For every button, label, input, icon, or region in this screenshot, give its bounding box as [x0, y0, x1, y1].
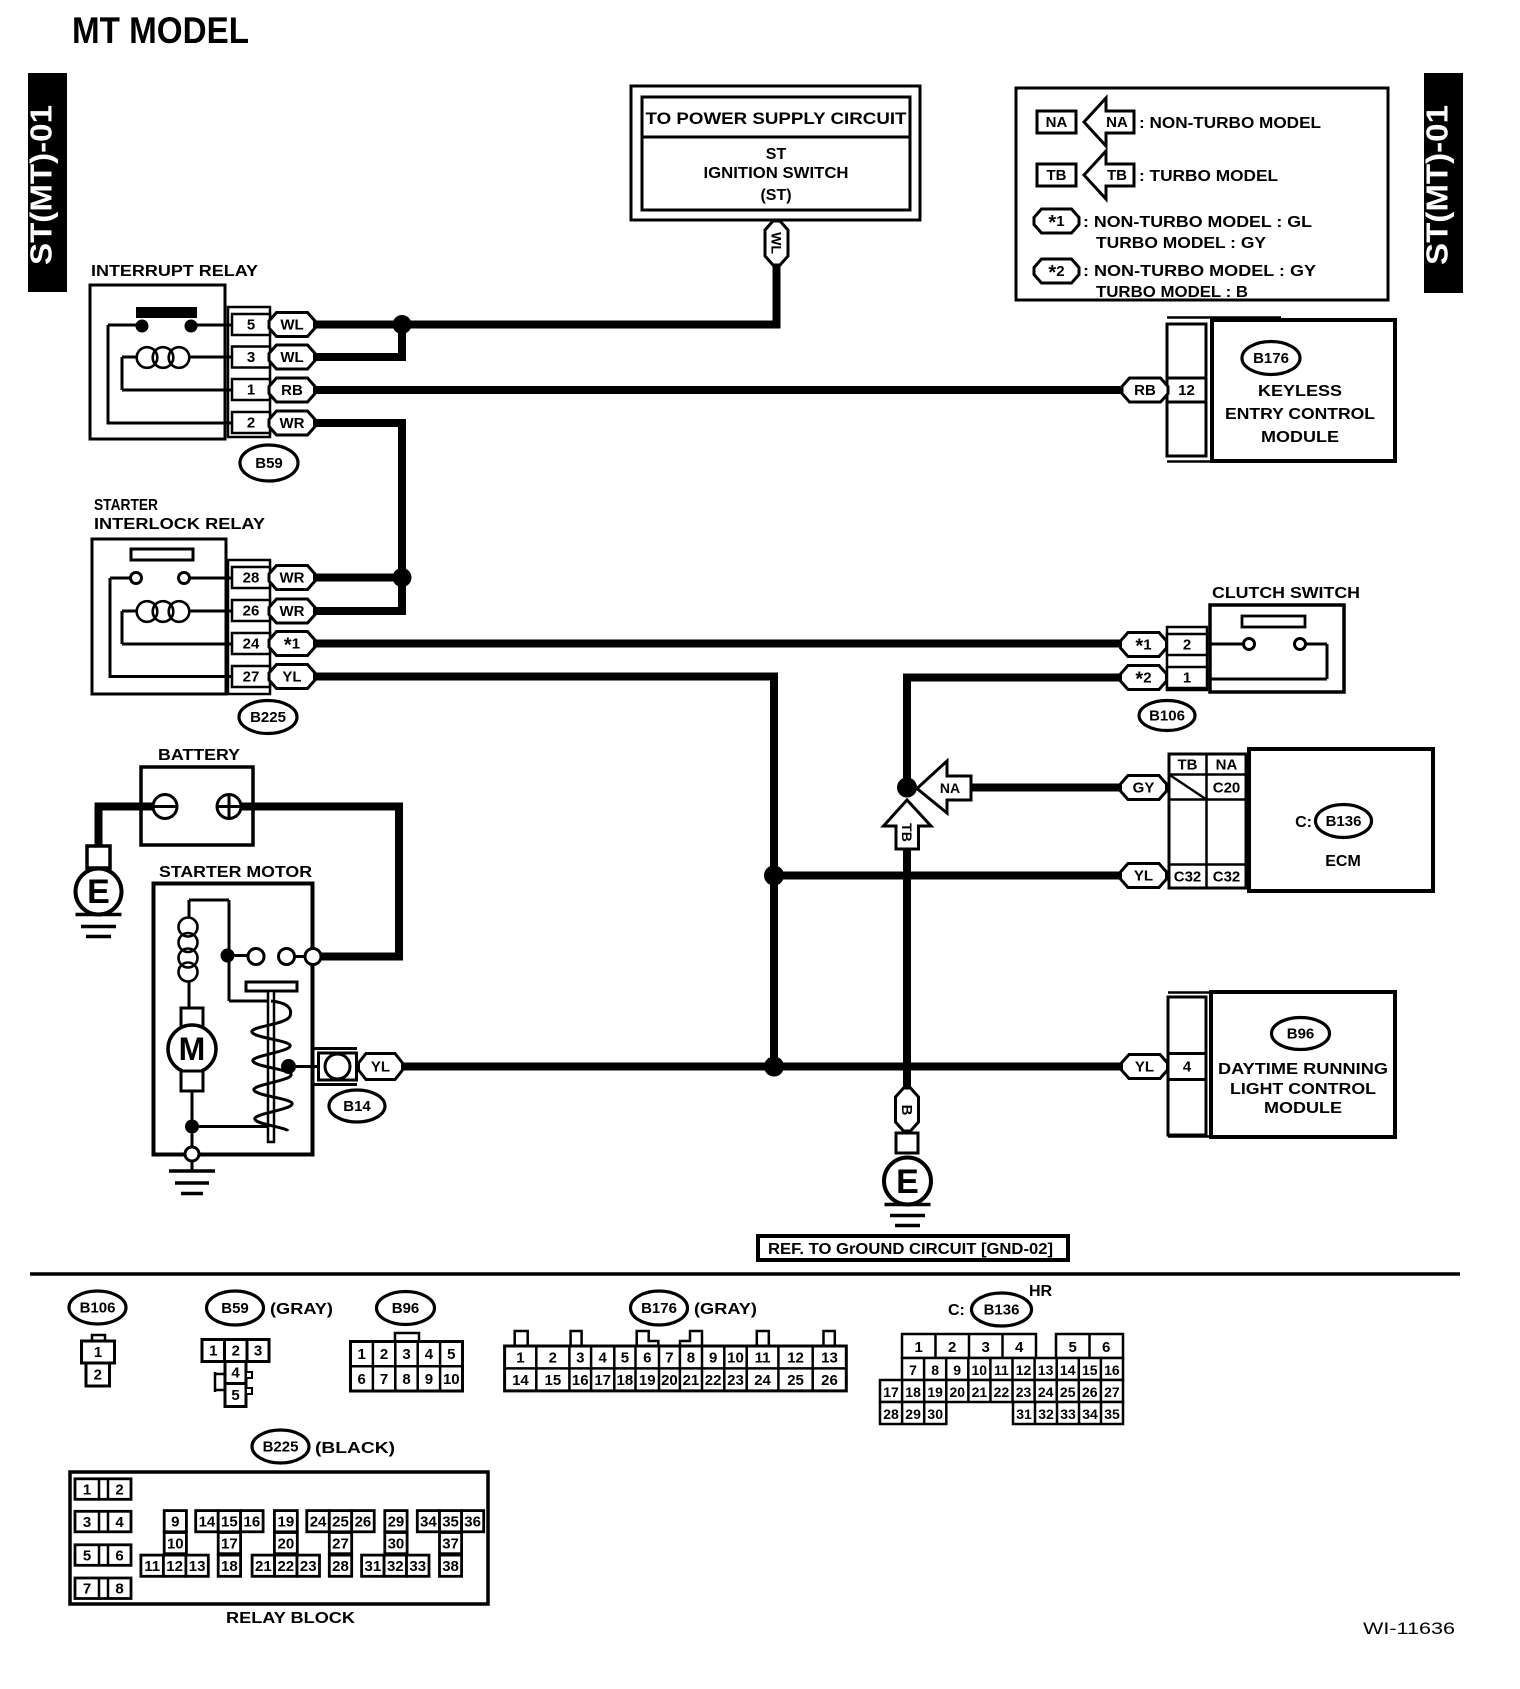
svg-text:13: 13 — [1038, 1362, 1054, 1378]
svg-text:26: 26 — [1082, 1384, 1098, 1400]
wire YL to ECM — [774, 872, 1121, 880]
ECM connector grid — [1169, 754, 1246, 888]
relay box (starter interlock relay) — [92, 539, 226, 694]
wire YL from B14 to daytime running light module — [403, 1063, 1124, 1071]
svg-text:NA: NA — [1216, 757, 1238, 774]
capsule *1 at clutch switch — [1121, 633, 1167, 657]
solenoid spring — [252, 1001, 292, 1131]
ground symbol (middle) — [885, 1205, 931, 1226]
svg-text:: NON-TURBO MODEL : GY: : NON-TURBO MODEL : GY — [1083, 263, 1316, 280]
svg-text:TURBO MODEL : B: TURBO MODEL : B — [1096, 284, 1248, 301]
svg-text:10: 10 — [972, 1362, 988, 1378]
svg-text:15: 15 — [545, 1372, 562, 1389]
svg-text:28: 28 — [332, 1558, 349, 1575]
svg-text:9: 9 — [953, 1362, 961, 1378]
svg-text:38: 38 — [442, 1558, 459, 1575]
legend TB box — [1037, 164, 1076, 186]
svg-text:STARTER: STARTER — [94, 497, 158, 514]
capsule RB at keyless module — [1122, 378, 1168, 402]
svg-text:22: 22 — [705, 1372, 722, 1389]
svg-text:12: 12 — [1016, 1362, 1032, 1378]
svg-text:35: 35 — [442, 1513, 459, 1530]
svg-text:12: 12 — [1178, 382, 1195, 399]
svg-text:2: 2 — [115, 1481, 123, 1498]
connector oval B96 (pinout) — [377, 1292, 435, 1325]
svg-text:37: 37 — [442, 1535, 459, 1552]
pin 2 capsule WR — [269, 411, 315, 435]
svg-text:B136: B136 — [1326, 813, 1362, 830]
svg-text:C20: C20 — [1213, 780, 1241, 797]
wire *2 from clutch switch down to ground — [907, 678, 1121, 788]
interrupt relay internal wires — [108, 325, 232, 423]
svg-text:32: 32 — [1038, 1406, 1054, 1422]
ground E circle (middle) — [884, 1158, 931, 1205]
clutch switch actuator bar — [1242, 616, 1305, 627]
svg-text:31: 31 — [365, 1558, 382, 1575]
svg-text:19: 19 — [639, 1372, 656, 1389]
svg-text:YL: YL — [1134, 868, 1153, 885]
svg-text:1: 1 — [247, 382, 255, 399]
svg-text:1: 1 — [358, 1346, 366, 1363]
svg-text:7: 7 — [665, 1350, 673, 1367]
svg-text:2: 2 — [948, 1339, 956, 1356]
svg-text:9: 9 — [709, 1350, 717, 1367]
junction node NA/TB — [897, 778, 917, 798]
svg-text:5: 5 — [231, 1387, 239, 1404]
svg-text:18: 18 — [905, 1384, 921, 1400]
svg-text:1: 1 — [915, 1339, 923, 1356]
svg-text:7: 7 — [380, 1371, 388, 1388]
ECM box — [1249, 749, 1433, 891]
svg-text:5: 5 — [247, 317, 255, 334]
svg-text:6: 6 — [115, 1547, 123, 1564]
svg-text:10: 10 — [167, 1535, 184, 1552]
svg-text:YL: YL — [1135, 1059, 1154, 1076]
pin 24 capsule *1 — [269, 632, 315, 656]
svg-text:TB: TB — [899, 823, 915, 842]
svg-text:5: 5 — [83, 1547, 91, 1564]
svg-text:3: 3 — [402, 1346, 410, 1363]
interlock relay contact circles — [131, 573, 142, 584]
connector oval B176 — [1242, 342, 1300, 375]
svg-text:24: 24 — [1038, 1384, 1054, 1400]
svg-text:27: 27 — [1104, 1384, 1120, 1400]
svg-text:B176: B176 — [1253, 350, 1289, 367]
spring contact dot — [281, 1059, 296, 1074]
battery box — [141, 767, 253, 845]
svg-text:8: 8 — [687, 1350, 695, 1367]
connector B14 (inline) — [314, 1049, 357, 1085]
svg-text:TURBO MODEL : GY: TURBO MODEL : GY — [1096, 235, 1266, 252]
svg-text:2: 2 — [380, 1346, 388, 1363]
capsule YL at ECM — [1121, 864, 1167, 888]
interlock relay contact bar — [131, 549, 193, 560]
svg-text:GY: GY — [1133, 780, 1155, 797]
svg-text:(GRAY): (GRAY) — [270, 1301, 333, 1318]
wire WR pin26 up to junction — [313, 578, 402, 612]
svg-text:21: 21 — [683, 1372, 700, 1389]
interrupt relay contact bar — [136, 307, 197, 318]
wire spring dot to B14 — [289, 1065, 319, 1068]
svg-text:B14: B14 — [343, 1098, 371, 1115]
svg-text:27: 27 — [243, 669, 260, 686]
svg-text:MODULE: MODULE — [1264, 1100, 1342, 1117]
svg-text:: NON-TURBO MODEL: : NON-TURBO MODEL — [1139, 115, 1321, 132]
starter motor contact dot — [221, 949, 235, 963]
svg-text:17: 17 — [883, 1384, 899, 1400]
svg-text:TO POWER SUPPLY CIRCUIT: TO POWER SUPPLY CIRCUIT — [646, 109, 908, 128]
svg-text:33: 33 — [1060, 1406, 1076, 1422]
svg-text:4: 4 — [1183, 1059, 1192, 1076]
plunger T bar — [246, 982, 297, 991]
pin 5 capsule WL — [269, 313, 315, 337]
svg-text:17: 17 — [221, 1535, 238, 1552]
svg-text:23: 23 — [727, 1372, 744, 1389]
wire GY from NA arrow to ECM — [971, 784, 1121, 792]
svg-text:21: 21 — [972, 1384, 988, 1400]
relay box (interrupt relay) — [90, 285, 225, 439]
legend NA arrow — [1084, 98, 1134, 146]
clutch switch contacts — [1244, 639, 1255, 650]
svg-text:16: 16 — [572, 1372, 589, 1389]
svg-text:34: 34 — [1082, 1406, 1098, 1422]
svg-text:12: 12 — [787, 1350, 804, 1367]
svg-text:ST(MT)-01: ST(MT)-01 — [1420, 105, 1455, 265]
starter motor box — [154, 884, 313, 1155]
svg-text:19: 19 — [927, 1384, 943, 1400]
svg-text:LIGHT CONTROL: LIGHT CONTROL — [1230, 1081, 1376, 1098]
svg-text:16: 16 — [1104, 1362, 1120, 1378]
svg-text:INTERLOCK RELAY: INTERLOCK RELAY — [94, 516, 265, 533]
svg-text:ST(MT)-01: ST(MT)-01 — [24, 105, 59, 265]
junction node YL/daytime — [764, 1057, 784, 1077]
svg-text:REF. TO GrOUND CIRCUIT [GND-02: REF. TO GrOUND CIRCUIT [GND-02] — [768, 1241, 1053, 1258]
svg-text:22: 22 — [277, 1558, 294, 1575]
svg-text:RELAY BLOCK: RELAY BLOCK — [226, 1610, 356, 1627]
svg-text:5: 5 — [447, 1346, 455, 1363]
clutch switch internal wires — [1210, 644, 1327, 679]
svg-text:15: 15 — [1082, 1362, 1098, 1378]
svg-text:B96: B96 — [1287, 1026, 1315, 1043]
motor bottom junction dot — [185, 1120, 199, 1134]
junction node WR — [393, 568, 412, 587]
svg-text:8: 8 — [402, 1371, 410, 1388]
wire battery minus to ground E — [99, 807, 156, 847]
svg-text:29: 29 — [905, 1406, 921, 1422]
svg-text:DAYTIME RUNNING: DAYTIME RUNNING — [1218, 1061, 1388, 1078]
svg-text:2: 2 — [94, 1367, 102, 1384]
daytime running light control module box — [1211, 992, 1395, 1137]
wire battery plus to starter motor — [239, 807, 399, 957]
svg-text:23: 23 — [1016, 1384, 1032, 1400]
svg-text:22: 22 — [994, 1384, 1010, 1400]
svg-text:26: 26 — [355, 1513, 372, 1530]
svg-text:RB: RB — [281, 382, 303, 399]
svg-text:B225: B225 — [250, 709, 286, 726]
svg-text:INTERRUPT RELAY: INTERRUPT RELAY — [91, 263, 258, 280]
svg-text:HR: HR — [1029, 1283, 1053, 1300]
svg-text:WL: WL — [769, 232, 785, 254]
pin 3 capsule WL — [269, 345, 315, 369]
interlock relay internal wires — [110, 578, 232, 677]
svg-text:1: 1 — [209, 1343, 217, 1360]
svg-text:5: 5 — [1069, 1339, 1077, 1356]
svg-text:2: 2 — [247, 415, 255, 432]
svg-text:B59: B59 — [221, 1300, 249, 1317]
svg-text:6: 6 — [643, 1350, 651, 1367]
svg-text:14: 14 — [199, 1513, 216, 1530]
svg-text:B136: B136 — [984, 1302, 1020, 1319]
ground connector rect (middle) — [896, 1133, 918, 1153]
svg-text:26: 26 — [821, 1372, 838, 1389]
svg-text:YL: YL — [371, 1059, 390, 1076]
svg-text:4: 4 — [115, 1514, 124, 1531]
svg-text:NA: NA — [1046, 114, 1068, 131]
pin 26 capsule WR — [269, 599, 315, 623]
svg-text:(BLACK): (BLACK) — [315, 1440, 395, 1457]
svg-text:6: 6 — [1102, 1339, 1110, 1356]
wire WR pin2 down to starter interlock relay — [313, 423, 402, 578]
svg-text:31: 31 — [1016, 1406, 1032, 1422]
interrupt relay connector column B59 — [228, 307, 270, 437]
svg-text:B106: B106 — [80, 1300, 116, 1317]
connector oval B106 (pinout) — [69, 1291, 126, 1324]
svg-text:24: 24 — [310, 1513, 327, 1530]
svg-text:4: 4 — [425, 1346, 434, 1363]
svg-text:28: 28 — [243, 570, 260, 587]
svg-text:1: 1 — [83, 1481, 91, 1498]
motor M circle — [168, 1025, 216, 1073]
capsule YL at B14 — [359, 1054, 403, 1080]
svg-text:(ST): (ST) — [760, 187, 791, 204]
capsule GY at ECM — [1121, 776, 1167, 800]
svg-text:18: 18 — [221, 1558, 238, 1575]
svg-text:1: 1 — [1183, 670, 1191, 687]
motor brush rect bottom — [181, 1071, 203, 1091]
svg-text:13: 13 — [821, 1350, 838, 1367]
relay block box — [70, 1472, 488, 1604]
keyless entry control module box — [1212, 320, 1395, 461]
interlock relay coil — [137, 601, 190, 622]
starter motor field coil — [179, 918, 198, 982]
svg-text:4: 4 — [1015, 1339, 1024, 1356]
svg-text:CLUTCH SWITCH: CLUTCH SWITCH — [1212, 585, 1360, 602]
svg-text:33: 33 — [409, 1558, 426, 1575]
connector oval B96 — [1272, 1018, 1330, 1050]
legend TB arrow — [1084, 151, 1134, 199]
clutch switch box — [1210, 605, 1344, 692]
capsule *2 at clutch switch — [1121, 666, 1167, 690]
svg-text:ENTRY CONTROL: ENTRY CONTROL — [1225, 406, 1375, 423]
svg-text:15: 15 — [221, 1513, 238, 1530]
svg-text:B225: B225 — [263, 1439, 299, 1456]
ground E circle (battery) — [76, 869, 122, 915]
wire *1 pin24 to clutch switch — [313, 640, 1121, 648]
legend NA box — [1037, 111, 1076, 133]
ground symbol (battery) — [76, 915, 122, 937]
right page tab ST(MT)-01 — [1420, 73, 1464, 293]
connector pinout B96 — [351, 1333, 463, 1391]
svg-text:34: 34 — [420, 1513, 437, 1530]
svg-text:11: 11 — [144, 1558, 160, 1575]
NA arrow marker — [917, 761, 971, 813]
svg-text:ST: ST — [766, 146, 787, 163]
connector oval B59 (pinout) — [207, 1291, 264, 1325]
svg-text:KEYLESS: KEYLESS — [1258, 383, 1342, 400]
svg-text:35: 35 — [1104, 1406, 1120, 1422]
svg-text:3: 3 — [982, 1339, 990, 1356]
svg-text:C32: C32 — [1174, 869, 1202, 886]
capsule YL at daytime module — [1122, 1055, 1168, 1079]
connector oval B136 (pinout) — [972, 1293, 1032, 1326]
svg-text:25: 25 — [332, 1513, 349, 1530]
svg-text:WR: WR — [280, 603, 305, 620]
relay block pin pairs 1-8 — [75, 1479, 131, 1599]
svg-text:10: 10 — [443, 1371, 460, 1388]
svg-text:STARTER MOTOR: STARTER MOTOR — [159, 864, 312, 881]
svg-text:RB: RB — [1134, 382, 1156, 399]
svg-text:30: 30 — [927, 1406, 943, 1422]
svg-text:9: 9 — [171, 1513, 179, 1530]
svg-text:WL: WL — [280, 349, 303, 366]
svg-text:(GRAY): (GRAY) — [694, 1301, 757, 1318]
svg-text:E: E — [896, 1163, 919, 1201]
connector pinout B106 — [82, 1335, 115, 1386]
TB arrow marker — [884, 800, 932, 849]
svg-text:3: 3 — [576, 1350, 584, 1367]
pin 28 capsule WR — [269, 566, 315, 590]
svg-text:ECM: ECM — [1325, 853, 1361, 870]
svg-text:4: 4 — [599, 1350, 608, 1367]
svg-text:3: 3 — [247, 349, 255, 366]
svg-text:2: 2 — [549, 1350, 557, 1367]
svg-text:1: 1 — [94, 1344, 102, 1361]
svg-text:5: 5 — [621, 1350, 629, 1367]
svg-text:11: 11 — [994, 1362, 1009, 1378]
svg-text:C:: C: — [1295, 814, 1312, 831]
svg-text:YL: YL — [282, 669, 301, 686]
svg-text:11: 11 — [755, 1350, 771, 1367]
legend box — [1016, 88, 1388, 300]
connector oval B225 (pinout) — [252, 1430, 309, 1463]
svg-text:16: 16 — [244, 1513, 261, 1530]
svg-text:32: 32 — [387, 1558, 404, 1575]
svg-text:17: 17 — [594, 1372, 611, 1389]
svg-text:WI-11636: WI-11636 — [1363, 1619, 1455, 1638]
svg-text:WR: WR — [280, 570, 305, 587]
clutch switch connector cells B106 — [1167, 627, 1207, 690]
wire YL pin27 down to daytime light row — [313, 677, 774, 1067]
svg-text:14: 14 — [1060, 1362, 1076, 1378]
interrupt relay contact dots — [136, 320, 149, 333]
svg-text:8: 8 — [931, 1362, 939, 1378]
svg-text:24: 24 — [754, 1372, 771, 1389]
svg-text:14: 14 — [512, 1372, 529, 1389]
svg-text:C32: C32 — [1213, 869, 1241, 886]
legend *1 capsule — [1034, 209, 1079, 233]
left page tab ST(MT)-01 — [24, 73, 68, 292]
wire WL pin3 up to junction — [313, 325, 402, 358]
svg-text:2: 2 — [1183, 637, 1191, 654]
connector oval B106 — [1139, 701, 1195, 731]
svg-text:21: 21 — [255, 1558, 272, 1575]
svg-text:26: 26 — [243, 603, 260, 620]
battery minus terminal — [153, 795, 177, 819]
wire RB pin1 to keyless entry module — [313, 386, 1123, 394]
svg-text:BATTERY: BATTERY — [158, 747, 240, 764]
svg-text:29: 29 — [388, 1513, 405, 1530]
connector oval B59 — [240, 445, 298, 481]
ref to ground circuit box — [758, 1236, 1068, 1260]
motor case open circle — [185, 1147, 199, 1161]
svg-text:36: 36 — [464, 1513, 481, 1530]
svg-text:7: 7 — [83, 1581, 91, 1598]
svg-text:10: 10 — [727, 1350, 744, 1367]
relay block T-groups — [141, 1511, 484, 1577]
connector B (vertical capsule) — [896, 1088, 919, 1131]
junction node YL/ECM — [764, 866, 784, 886]
pin 1 capsule RB — [269, 378, 315, 402]
ground connector rect (battery) — [87, 846, 110, 868]
starter motor internal wires — [189, 900, 305, 1148]
svg-text:20: 20 — [278, 1535, 295, 1552]
svg-text:B106: B106 — [1149, 708, 1185, 725]
svg-text:20: 20 — [661, 1372, 678, 1389]
svg-text:B176: B176 — [641, 1300, 677, 1317]
separator line — [30, 1272, 1460, 1276]
svg-text:: NON-TURBO MODEL : GL: : NON-TURBO MODEL : GL — [1083, 214, 1312, 231]
svg-text:2: 2 — [232, 1343, 240, 1360]
svg-text:TB: TB — [1178, 757, 1198, 774]
connector WL (vertical capsule) — [765, 221, 788, 265]
svg-text:B96: B96 — [392, 1300, 420, 1317]
svg-text:WR: WR — [280, 415, 305, 432]
connector pinout B59 — [202, 1340, 269, 1407]
svg-text:NA: NA — [1106, 114, 1128, 131]
daytime module connector strip — [1168, 993, 1299, 1137]
svg-text:7: 7 — [909, 1362, 917, 1378]
svg-text:M: M — [179, 1031, 206, 1067]
svg-text:8: 8 — [115, 1581, 123, 1598]
battery plus terminal — [217, 795, 241, 819]
legend *2 capsule — [1034, 259, 1079, 283]
ground symbol (starter motor) — [169, 1171, 215, 1194]
svg-text:30: 30 — [388, 1535, 405, 1552]
junction node WL — [393, 315, 412, 334]
ignition switch box (TO POWER SUPPLY CIRCUIT / ST IGNITION SWITCH) — [631, 86, 920, 220]
svg-text:13: 13 — [189, 1558, 206, 1575]
svg-text:3: 3 — [254, 1343, 262, 1360]
svg-text:28: 28 — [883, 1406, 899, 1422]
keyless entry module connector strip — [1167, 318, 1299, 462]
svg-text:9: 9 — [425, 1371, 433, 1388]
pin 27 capsule YL — [269, 665, 315, 689]
starter motor contact circles — [248, 949, 264, 965]
svg-text:E: E — [87, 873, 110, 911]
svg-text:B59: B59 — [255, 455, 283, 472]
connector oval B14 — [329, 1090, 385, 1122]
wire B from TB arrow down to ground connector — [903, 849, 911, 1090]
svg-text:MT MODEL: MT MODEL — [72, 10, 249, 51]
svg-text:18: 18 — [617, 1372, 634, 1389]
svg-text:25: 25 — [1060, 1384, 1076, 1400]
svg-text:4: 4 — [231, 1365, 240, 1382]
connector oval B136 — [1316, 805, 1372, 838]
svg-text:: TURBO MODEL: : TURBO MODEL — [1139, 168, 1278, 185]
svg-text:6: 6 — [358, 1371, 366, 1388]
svg-text:23: 23 — [300, 1558, 317, 1575]
wire WR pin28 to junction — [313, 574, 402, 582]
